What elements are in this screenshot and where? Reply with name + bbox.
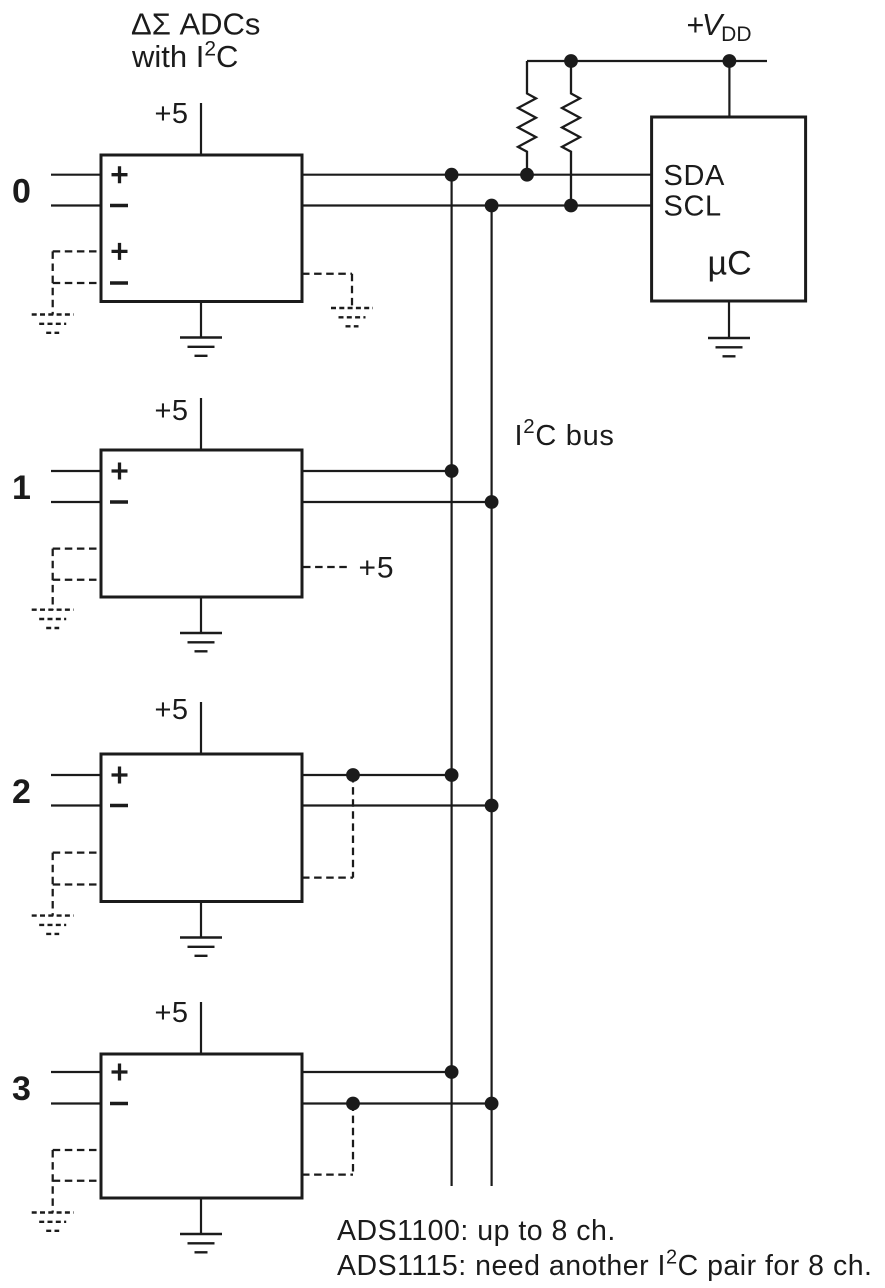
svg-text:+5: +5 xyxy=(359,552,395,585)
svg-text:3: 3 xyxy=(12,1070,31,1108)
svg-text:1: 1 xyxy=(12,469,31,507)
svg-text:ADS1100: up to 8 ch.: ADS1100: up to 8 ch. xyxy=(337,1215,616,1247)
svg-text:with I2C: with I2C xyxy=(131,38,238,74)
svg-text:SDA: SDA xyxy=(664,160,725,192)
svg-text:+5: +5 xyxy=(155,395,189,427)
svg-text:ΔΣ ADCs: ΔΣ ADCs xyxy=(131,7,260,42)
svg-text:SCL: SCL xyxy=(664,191,722,223)
svg-text:+5: +5 xyxy=(155,997,189,1029)
svg-text:µC: µC xyxy=(708,245,752,283)
svg-text:2: 2 xyxy=(12,773,31,811)
svg-text:ADS1115: need another I2C pair: ADS1115: need another I2C pair for 8 ch. xyxy=(337,1247,872,1283)
svg-text:+5: +5 xyxy=(155,98,189,130)
svg-text:0: 0 xyxy=(12,173,31,211)
svg-text:+5: +5 xyxy=(155,694,189,726)
